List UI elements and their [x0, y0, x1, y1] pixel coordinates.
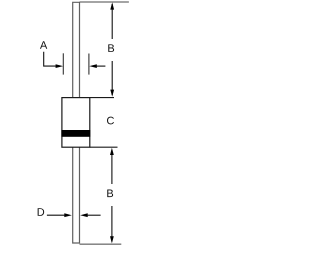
dimension B top: shaft: [111, 4, 113, 39]
extension line bottom lead tip: [80, 243, 122, 245]
dimension B top: up arrowhead: [110, 2, 114, 9]
dimension D left-pointing arrowhead: [80, 213, 88, 217]
dimension D right shaft: [87, 214, 100, 216]
dimension D right-pointing arrowhead: [64, 213, 72, 217]
bottom lead wire: [73, 147, 80, 243]
top lead wire: [73, 2, 80, 97]
dimension B top: down arrowhead: [110, 90, 114, 97]
dimension A right side shaft: [97, 65, 106, 67]
dimension A right tick: [88, 54, 90, 75]
dimension A right-pointing arrowhead: [56, 64, 64, 68]
dimension A left tick: [62, 53, 64, 74]
label C: [107, 117, 114, 125]
dimension A left-pointing arrowhead: [89, 64, 97, 68]
label B (top): [108, 44, 114, 52]
label D: [38, 208, 45, 216]
label B (bottom): [107, 190, 113, 198]
label A: [40, 41, 47, 49]
extension line top lead tip: [80, 1, 129, 3]
dimension A leader: [44, 52, 56, 66]
dimension B bottom: down arrowhead: [110, 236, 114, 243]
extension line body top: [90, 97, 114, 99]
cathode band: [61, 130, 90, 137]
dimension D left shaft: [47, 214, 65, 216]
dimension B bottom: shaft: [111, 150, 113, 184]
extension line body bottom: [90, 146, 118, 148]
diode body: [62, 98, 90, 148]
dimension B bottom: up arrowhead: [110, 148, 114, 155]
